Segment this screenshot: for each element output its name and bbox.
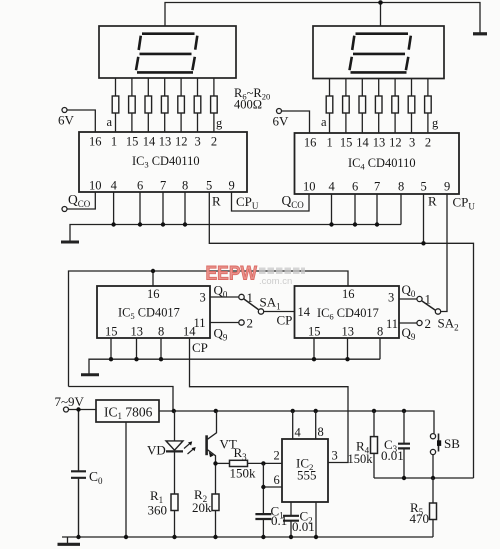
- svg-text:2: 2: [211, 135, 217, 149]
- junction IC6 pin15: [312, 357, 316, 361]
- junction C3 bottom: [402, 476, 406, 480]
- svg-text:15: 15: [340, 136, 353, 150]
- capacitor C2: [283, 502, 299, 537]
- svg-text:16: 16: [89, 135, 102, 149]
- svg-text:6V: 6V: [273, 114, 290, 129]
- svg-text:6: 6: [352, 180, 358, 194]
- wire left resistors to IC3 pins: [116, 113, 214, 132]
- svg-text:16: 16: [304, 136, 317, 150]
- wire 555 pin6: [263, 486, 282, 488]
- junction IC4 pin4: [329, 222, 333, 226]
- watermark EEPW: [206, 263, 258, 285]
- wire display DS2 leads to resistors: [330, 79, 428, 97]
- junction IC3 pin7: [161, 222, 165, 226]
- svg-text:3: 3: [388, 291, 394, 305]
- svg-text:3: 3: [200, 291, 206, 305]
- svg-text:IC5 CD4017: IC5 CD4017: [118, 306, 180, 322]
- capacitor C0: [71, 410, 86, 538]
- junction VT collector: [214, 409, 218, 413]
- svg-text:14: 14: [298, 305, 311, 319]
- svg-text:g: g: [432, 116, 439, 130]
- svg-text:3: 3: [195, 135, 201, 149]
- wire IC5 CP line to 555 out: [190, 338, 349, 463]
- svg-text:.com.cn: .com.cn: [259, 276, 292, 287]
- svg-text:15: 15: [105, 325, 118, 339]
- svg-text:14: 14: [183, 325, 196, 339]
- svg-text:VD: VD: [147, 443, 166, 458]
- svg-text:13: 13: [373, 136, 386, 150]
- node R junction: [421, 241, 425, 245]
- svg-text:1: 1: [247, 290, 254, 305]
- svg-text:7: 7: [374, 180, 380, 194]
- svg-text:6: 6: [274, 473, 280, 487]
- svg-text:3: 3: [409, 136, 415, 150]
- svg-text:14: 14: [143, 135, 156, 149]
- svg-text:20k: 20k: [192, 500, 212, 515]
- node input junction: [76, 407, 80, 411]
- svg-text:EEPW: EEPW: [206, 263, 258, 285]
- svg-text:11: 11: [386, 317, 398, 331]
- junction C3 top: [402, 409, 406, 413]
- op-amp IC3 CD40110 body: [79, 132, 247, 192]
- svg-text:15: 15: [126, 135, 138, 149]
- switch SA2 arm: [422, 301, 441, 314]
- svg-text:1: 1: [111, 135, 117, 149]
- svg-text:13: 13: [159, 135, 172, 149]
- svg-text:2: 2: [425, 136, 431, 150]
- junction IC4 pin7: [375, 222, 379, 226]
- diode VD light arrows: [184, 441, 196, 454]
- ground bottom: [58, 543, 81, 546]
- junction 7806 output: [172, 409, 176, 413]
- junction R4 top: [372, 409, 376, 413]
- junction 555 pin1 ground: [314, 535, 318, 539]
- junction C1 ground: [261, 535, 265, 539]
- wire IC4 CPU down to SA2: [441, 194, 447, 312]
- wire reset sub bus: [374, 477, 474, 479]
- resistors R6-R12 left bank: [112, 96, 217, 113]
- wire IC3 QCO out: [62, 192, 95, 212]
- svg-text:R: R: [212, 194, 221, 209]
- wire right resistors to IC4 pins: [330, 113, 428, 133]
- wire R reset bus: [209, 192, 473, 478]
- junction IC5 pin15: [109, 357, 113, 361]
- op-amp IC4 CD40110 body: [295, 133, 460, 194]
- svg-text:360: 360: [148, 503, 168, 518]
- svg-text:2: 2: [274, 449, 280, 463]
- svg-text:9: 9: [229, 179, 235, 193]
- node pin6 junction: [261, 485, 265, 489]
- wire counters ground bus: [89, 338, 380, 374]
- wire IC3 CPU to IC4 QCO: [232, 192, 310, 211]
- junction IC3 pin8: [183, 222, 187, 226]
- junction IC3 pin6: [138, 222, 142, 226]
- terminal 6V left: [62, 108, 95, 133]
- svg-text:15: 15: [308, 325, 321, 339]
- wire IC5 Q0 out: [210, 294, 244, 299]
- junction 555 pin4: [291, 409, 295, 413]
- svg-text:9: 9: [444, 180, 450, 194]
- svg-text:5: 5: [206, 179, 212, 193]
- watermark gray blocks: [259, 268, 305, 288]
- svg-text:IC1 7806: IC1 7806: [104, 405, 153, 422]
- svg-text:IC6 CD4017: IC6 CD4017: [317, 306, 379, 322]
- svg-text:400Ω: 400Ω: [234, 98, 262, 112]
- svg-text:8: 8: [182, 179, 188, 193]
- resistor R2: [212, 463, 219, 537]
- resistor R3: [216, 460, 283, 466]
- svg-text:CP: CP: [192, 340, 208, 355]
- svg-text:4: 4: [295, 426, 302, 440]
- regulator IC1 7806 body: [96, 400, 159, 422]
- wire main ground bus: [62, 537, 433, 543]
- svg-text:4: 4: [329, 180, 336, 194]
- junction VT emitter R2 R3: [213, 461, 217, 465]
- svg-text:a: a: [321, 115, 327, 129]
- junction R1 ground: [172, 535, 176, 539]
- ground counters: [81, 373, 99, 376]
- svg-text:8: 8: [158, 325, 164, 339]
- wire SA1 pole to IC6 CP: [264, 311, 295, 313]
- wire 555 pin1 ground: [315, 502, 317, 537]
- svg-text:0.01: 0.01: [292, 519, 315, 534]
- svg-text:6V: 6V: [58, 113, 75, 128]
- junction 555 pin2 C1: [261, 461, 265, 465]
- wire IC5 Q9 out: [210, 320, 244, 325]
- junction IC3 pin4: [111, 222, 115, 226]
- op-amp IC5 CD4017 body: [97, 286, 210, 338]
- svg-text:16: 16: [147, 287, 160, 301]
- junction 7806 ground: [124, 535, 128, 539]
- wire Vdd rail to counters: [69, 271, 349, 387]
- ground mid left: [61, 241, 79, 244]
- svg-text:1: 1: [425, 292, 432, 307]
- junction IC6 pin13: [345, 357, 349, 361]
- svg-text:SB: SB: [444, 436, 460, 451]
- svg-text:2: 2: [425, 316, 432, 331]
- junction 555 pin8: [314, 409, 318, 413]
- wire display DS1 leads to resistors: [116, 78, 214, 96]
- capacitor C1: [255, 463, 271, 537]
- switch SA1 arm: [244, 299, 264, 314]
- switch SB pushbutton: [430, 434, 441, 479]
- diode VD led: [166, 411, 183, 494]
- svg-text:555: 555: [297, 468, 317, 483]
- svg-text:150k: 150k: [348, 452, 374, 466]
- wire IC6 Q0 out: [399, 296, 422, 301]
- svg-text:10: 10: [89, 179, 102, 193]
- svg-text:13: 13: [131, 325, 144, 339]
- display DS1 digit segments: [136, 34, 197, 73]
- node Vdd junction: [151, 269, 155, 273]
- svg-text:1: 1: [327, 136, 333, 150]
- svg-text:13: 13: [342, 325, 355, 339]
- junction C2 ground: [289, 535, 293, 539]
- svg-text:470: 470: [410, 511, 430, 526]
- svg-text:2: 2: [247, 316, 254, 331]
- svg-text:8: 8: [377, 325, 383, 339]
- svg-text:a: a: [107, 115, 113, 129]
- svg-text:g: g: [216, 116, 223, 130]
- svg-text:150k: 150k: [230, 466, 257, 481]
- svg-text:0.1: 0.1: [271, 513, 287, 528]
- svg-text:CP: CP: [277, 313, 293, 328]
- wire IC6 Q9 out: [399, 320, 422, 325]
- display DS2 digit segments: [350, 34, 411, 73]
- svg-text:8: 8: [398, 180, 404, 194]
- junction IC4 pin6: [353, 222, 357, 226]
- svg-text:14: 14: [356, 136, 369, 150]
- wire right display drop: [380, 3, 382, 27]
- wire 7806 ground pin: [125, 422, 127, 537]
- resistor R5: [430, 478, 437, 537]
- junction IC5 pin8: [159, 357, 163, 361]
- svg-text:IC3 CD40110: IC3 CD40110: [132, 154, 200, 170]
- svg-text:3: 3: [332, 449, 338, 463]
- junction IC5 pin13: [134, 357, 138, 361]
- svg-text:16: 16: [342, 287, 355, 301]
- svg-text:7: 7: [160, 179, 166, 193]
- svg-text:0.01: 0.01: [381, 448, 404, 463]
- svg-text:R: R: [428, 194, 437, 209]
- display DS2 body: [313, 26, 444, 79]
- svg-text:12: 12: [175, 135, 188, 149]
- resistor R4: [371, 411, 378, 478]
- svg-text:7~9V: 7~9V: [55, 394, 85, 409]
- svg-text:12: 12: [389, 136, 402, 150]
- timer IC2 555 body: [282, 439, 328, 502]
- wire 7806 output and 6V rail: [69, 387, 435, 434]
- wire 555 pins 4 8: [293, 411, 316, 439]
- capacitor C3: [398, 411, 410, 478]
- terminal 6V right: [277, 109, 310, 134]
- node top junction: [378, 0, 383, 5]
- ground top right: [473, 32, 487, 35]
- svg-text:4: 4: [111, 179, 118, 193]
- wire ground bus ICs: [70, 192, 401, 241]
- resistors R13-R20 right bank: [326, 96, 431, 113]
- svg-text:5: 5: [421, 180, 427, 194]
- transistor VT: [207, 411, 217, 464]
- op-amp IC6 CD4017 body: [295, 286, 400, 338]
- resistor R1: [171, 494, 178, 537]
- terminal 7-9V input: [64, 407, 97, 412]
- wire top common rail: [165, 3, 480, 34]
- display DS1 body: [99, 26, 236, 78]
- junction SB bottom: [431, 476, 435, 480]
- svg-text:8: 8: [318, 425, 324, 439]
- junction C0 ground: [76, 535, 80, 539]
- svg-text:6: 6: [137, 179, 143, 193]
- svg-text:IC4 CD40110: IC4 CD40110: [348, 156, 416, 172]
- junction R2 ground: [213, 535, 217, 539]
- svg-text:10: 10: [303, 180, 316, 194]
